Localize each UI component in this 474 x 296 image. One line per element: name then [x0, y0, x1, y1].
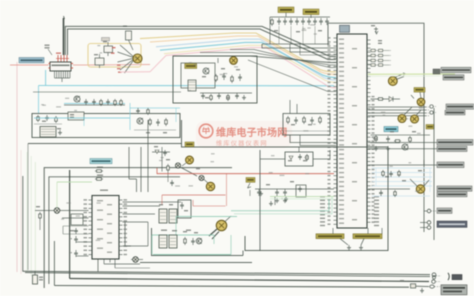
svg-text:维库电子市场网: 维库电子市场网	[216, 126, 287, 139]
svg-text:维库仪器仪表网: 维库仪器仪表网	[216, 140, 268, 148]
